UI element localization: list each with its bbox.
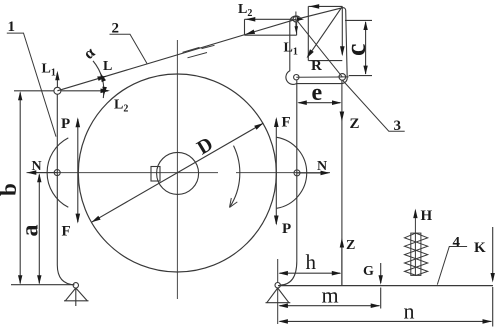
- svg-text:N: N: [317, 159, 327, 174]
- force L2 horizontal at lever top: [61, 90, 108, 92]
- keyway: [151, 167, 160, 182]
- svg-text:Z: Z: [350, 116, 360, 132]
- dimension c: [345, 20, 372, 75]
- bell crank top pivot: [293, 16, 299, 22]
- right shoe pivot: [294, 170, 300, 176]
- force N right: [297, 172, 328, 174]
- label 3: [343, 81, 405, 132]
- svg-text:P: P: [61, 116, 70, 132]
- break marks on rod 2: [183, 45, 215, 58]
- dimension n: [280, 320, 492, 322]
- force G: [380, 263, 382, 309]
- crank arm diagonal: [296, 19, 342, 77]
- svg-text:h: h: [306, 250, 317, 274]
- right support hinge circle: [275, 283, 280, 288]
- svg-text:G: G: [363, 264, 374, 279]
- bell crank bottom-left pin: [294, 75, 299, 80]
- svg-text:F: F: [282, 115, 291, 131]
- svg-text:c: c: [341, 44, 372, 56]
- right friction force line (F up / P down): [275, 119, 277, 224]
- force parallelogram at crank pivot: [245, 19, 297, 35]
- right brake shoe arc: [277, 137, 307, 208]
- brake drum: [78, 74, 276, 272]
- left brake shoe arc: [47, 138, 68, 207]
- rod 2: [57, 19, 296, 91]
- force Z down: [340, 112, 345, 122]
- drum vertical centerline: [176, 40, 178, 299]
- right support centerline: [277, 259, 279, 324]
- left friction force line (P up / F down): [77, 119, 79, 222]
- lever 4: [278, 285, 493, 287]
- svg-text:K: K: [474, 240, 486, 256]
- svg-text:L: L: [103, 59, 112, 74]
- right support triangle: [266, 288, 291, 303]
- resultant R: [308, 6, 342, 56]
- svg-text:m: m: [322, 283, 339, 308]
- spring coil zigzag: [405, 233, 428, 275]
- force K: [492, 227, 494, 327]
- diameter D arrow: [91, 123, 263, 222]
- force H: [413, 209, 417, 219]
- force L along rod: [97, 76, 107, 81]
- force L1 at lever top: [56, 73, 58, 87]
- svg-text:P: P: [282, 221, 291, 237]
- svg-text:N: N: [32, 159, 42, 174]
- svg-text:3: 3: [394, 118, 402, 134]
- resultant L on rod: [246, 30, 256, 35]
- svg-text:e: e: [312, 80, 323, 106]
- angle alpha arc: [93, 61, 104, 98]
- dimension h: [280, 272, 341, 274]
- rotation direction arc: [230, 146, 240, 207]
- pull rod: [341, 81, 343, 286]
- svg-text:n: n: [404, 299, 415, 324]
- svg-text:4: 4: [453, 235, 461, 251]
- svg-text:Z: Z: [346, 238, 355, 253]
- svg-text:F: F: [62, 224, 71, 240]
- dimension m: [280, 305, 380, 307]
- dimension e: [299, 102, 341, 104]
- lever 1 top pivot: [54, 87, 61, 94]
- svg-text:b: b: [0, 183, 21, 196]
- hub circle: [157, 152, 199, 194]
- label 4: [437, 247, 467, 285]
- pin link line: [296, 76, 342, 78]
- spring rod centerline: [414, 211, 416, 277]
- svg-text:R: R: [311, 58, 322, 74]
- left support hinge circle: [73, 283, 78, 288]
- left support triangle: [64, 288, 89, 306]
- drum horizontal centerline: [27, 172, 331, 174]
- left shoe pivot: [54, 170, 60, 176]
- force Z up: [341, 240, 343, 285]
- lever 1 (left): [57, 94, 74, 284]
- force parallelogram at crank corner: [308, 6, 342, 60]
- bell crank bottom-right pin: [339, 74, 346, 81]
- dimension a: [38, 175, 40, 284]
- spring body: [411, 233, 421, 275]
- dimension b: [14, 91, 54, 284]
- svg-text:a: a: [18, 225, 44, 237]
- svg-text:H: H: [421, 208, 433, 224]
- right lever: [280, 81, 297, 286]
- force N left: [29, 172, 58, 174]
- left ground baseline: [11, 284, 74, 286]
- bell crank 3 plate: [286, 8, 347, 85]
